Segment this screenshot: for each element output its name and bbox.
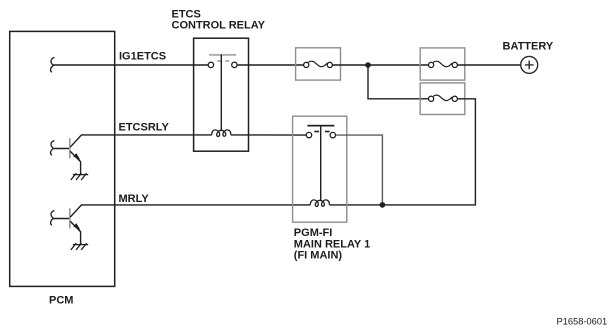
junction node dot 2 xyxy=(380,202,386,208)
PCM box xyxy=(10,31,115,286)
fuse F2 circle right xyxy=(452,62,457,67)
wire ETCSRLY relay to PGM-FI relay xyxy=(231,134,307,136)
svg-text:BATTERY: BATTERY xyxy=(503,40,554,52)
wire junction down and to fuse3 xyxy=(368,65,429,99)
wire PGM-FI contact to junction2 (gray) xyxy=(336,135,383,203)
wire fuse2 to battery xyxy=(457,64,520,66)
svg-text:P1658-0601: P1658-0601 xyxy=(557,317,608,327)
svg-text:MAIN RELAY 1: MAIN RELAY 1 xyxy=(294,238,370,250)
PGM-FI dashed link xyxy=(314,131,319,133)
fuse F2 box xyxy=(420,48,465,80)
svg-text:PCM: PCM xyxy=(49,295,73,307)
wire fuse1 to junction to fuse2 xyxy=(332,64,428,66)
fuse F1 circle left xyxy=(304,62,309,67)
ground G2 xyxy=(71,243,88,250)
ETCS relay coil xyxy=(212,130,231,137)
fuse F2 element xyxy=(433,61,452,67)
transistor Q2 emitter arrowhead xyxy=(74,224,79,229)
wire MRLY xyxy=(81,204,310,206)
relay contact circle left xyxy=(208,62,213,67)
battery terminal xyxy=(521,56,538,73)
PGM-FI vertical link xyxy=(320,125,322,200)
transistor Q1 base wire xyxy=(53,148,69,150)
fuse F1 circle right xyxy=(327,62,332,67)
transistor Q1 pigtail squiggle xyxy=(51,141,55,156)
relay contact circle right xyxy=(232,62,237,67)
svg-text:ETCSRLY: ETCSRLY xyxy=(119,122,170,134)
fuse F3 circle left xyxy=(429,96,434,101)
fuse F1 element xyxy=(308,61,327,67)
transistor Q1 emitter arrowhead xyxy=(74,154,79,159)
transistor Q2 base bar xyxy=(69,208,71,228)
pigtail squiggle IG1ETCS xyxy=(51,57,55,72)
wire ETCSRLY xyxy=(81,134,212,136)
PGM-FI contact circle right xyxy=(330,132,335,137)
relay armature bar xyxy=(209,54,236,56)
ETCS control relay box xyxy=(194,38,249,151)
transistor Q1 emitter xyxy=(70,151,80,174)
transistor Q2 emitter xyxy=(70,221,80,244)
transistor Q2 base wire xyxy=(53,218,69,220)
svg-text:ETCS: ETCS xyxy=(172,9,201,21)
transistor Q2 collector xyxy=(70,205,81,217)
PGM-FI main relay box xyxy=(293,116,347,222)
fuse F3 element xyxy=(433,95,452,101)
svg-text:CONTROL RELAY: CONTROL RELAY xyxy=(172,20,266,32)
PGM-FI relay coil xyxy=(310,200,329,207)
fuse F3 box xyxy=(420,83,465,115)
relay dashed link xyxy=(217,60,222,62)
transistor Q1 base bar xyxy=(69,138,71,158)
transistor Q1 collector xyxy=(70,135,81,147)
svg-text:(FI MAIN): (FI MAIN) xyxy=(294,250,343,262)
wire relay to fuse1 xyxy=(237,64,303,66)
fuse F1 box xyxy=(296,48,341,80)
ground G1 xyxy=(71,173,88,180)
junction node dot xyxy=(365,62,371,68)
svg-text:MRLY: MRLY xyxy=(119,193,150,205)
transistor Q2 pigtail squiggle xyxy=(51,211,55,226)
wire IG1ETCS xyxy=(53,64,208,66)
wire fuse3 right down to MRLY rail xyxy=(384,99,475,205)
PGM-FI contact circle left xyxy=(306,132,311,137)
fuse F2 circle left xyxy=(429,62,434,67)
relay vertical link xyxy=(220,55,222,131)
fuse F3 circle right xyxy=(452,96,457,101)
svg-text:IG1ETCS: IG1ETCS xyxy=(119,50,166,62)
wire MRLY coil to junction2 xyxy=(329,204,384,206)
svg-text:PGM-FI: PGM-FI xyxy=(294,227,333,239)
PGM-FI armature bar xyxy=(307,125,334,127)
